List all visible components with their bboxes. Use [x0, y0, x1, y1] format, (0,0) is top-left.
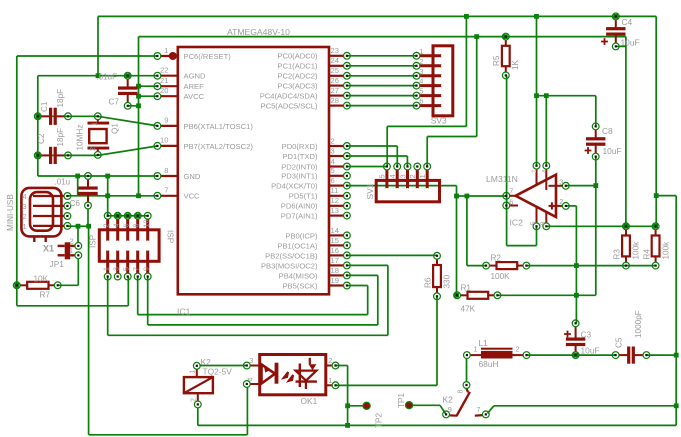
svg-text:PC6(/RESET): PC6(/RESET) — [184, 52, 232, 61]
IC1 pin 8 GND — [161, 175, 178, 177]
svg-text:8: 8 — [540, 221, 547, 225]
resistor R4 top — [652, 223, 659, 230]
svg-text:16: 16 — [331, 246, 339, 255]
X1 pin circle 3 — [64, 203, 71, 210]
junction R1 left — [454, 293, 459, 298]
SV3 pin circle 4 — [413, 82, 420, 89]
junction C3 bottom — [573, 353, 578, 358]
OK1 LED symbol — [262, 365, 276, 384]
svg-text:PB7(XTAL2/TOSC2): PB7(XTAL2/TOSC2) — [184, 142, 254, 151]
resistor R6 top — [434, 252, 441, 259]
svg-text:JP1: JP1 — [50, 259, 65, 269]
wire PB5 stub row — [347, 285, 368, 287]
SV1 pin circle 2 — [414, 163, 421, 170]
ISP pin circle 2 — [104, 212, 111, 219]
svg-text:2: 2 — [331, 136, 335, 145]
JP1 pin 1 — [75, 252, 82, 259]
ISP pin 5 bottom — [126, 248, 129, 273]
OK1 pin 3 circle — [243, 362, 250, 369]
pin circle 24 — [344, 62, 351, 69]
IC2 pin 7 output — [510, 195, 516, 197]
svg-text:1: 1 — [23, 222, 27, 231]
svg-text:LM311N: LM311N — [486, 174, 518, 184]
wire SCK row — [138, 314, 368, 316]
pin circle 27 — [344, 92, 351, 99]
wire vertical gnd-vcc link — [77, 176, 79, 196]
svg-text:PD5(T1): PD5(T1) — [289, 192, 318, 201]
IC1 pin 10 PB7(XTAL2/TOSC2) — [161, 145, 178, 147]
pin circle 19 — [344, 282, 351, 289]
IC1 pin 6 PD4(XCK/T0) — [329, 185, 343, 187]
junction GND-ISP — [105, 174, 110, 179]
wire TP1 to K2 pin9 — [412, 404, 440, 406]
wire vertical to top rail — [465, 16, 467, 126]
svg-text:7: 7 — [164, 186, 168, 195]
SV3 pin 2 — [420, 64, 444, 67]
svg-text:100k: 100k — [662, 241, 671, 260]
capacitor C6 — [87, 179, 89, 188]
ISP pin circle 9 — [144, 273, 151, 280]
resistor R5 bottom — [502, 72, 509, 79]
ISP pin 7 bottom — [136, 248, 139, 273]
OK1 pins — [250, 365, 259, 367]
wire RESET row to pin1 — [17, 55, 158, 57]
junction R2R3 row — [574, 263, 579, 268]
junction C1 left — [35, 114, 40, 119]
pin circle 7 — [154, 192, 161, 199]
pin circle 21 — [154, 83, 161, 90]
wire node row 136 — [427, 136, 477, 138]
wire PC1 to SV3 pin2 — [347, 65, 417, 67]
svg-text:28: 28 — [331, 96, 339, 105]
IC1 pin 1 reset dot marker — [169, 52, 177, 60]
wire VCC top rail — [139, 36, 626, 38]
IC2 pin 2 circle — [562, 203, 569, 210]
SV3 pin 5 — [420, 94, 444, 97]
svg-text:5: 5 — [530, 221, 537, 225]
wire USB pin1 row — [67, 225, 88, 227]
wire JP1 pin1 down — [77, 259, 79, 286]
OK1 light arrows — [284, 372, 289, 378]
wire R1 right row — [497, 294, 595, 296]
IC2 pin 5 circle — [533, 223, 540, 230]
resistor R5 top — [502, 33, 509, 40]
SV1 pin 1 — [426, 170, 429, 191]
K2 lever — [457, 392, 470, 416]
wire up to IC2 pin5 — [536, 226, 538, 245]
wire diagonal to pin9 — [440, 405, 446, 413]
wire C8 top row — [537, 95, 596, 97]
wire vertical to R2 left — [466, 196, 468, 266]
svg-text:C5: C5 — [615, 337, 624, 348]
IC2 pin 2 input plus — [549, 205, 563, 207]
pin circle 17 — [344, 262, 351, 269]
junction USB1-JP1 — [76, 224, 81, 229]
IC2 pin 8 bottom — [545, 212, 547, 223]
svg-text:3: 3 — [398, 174, 407, 178]
jumper JP1 body — [65, 242, 71, 259]
junction AREF — [136, 84, 141, 89]
IC1 pin 19 PB5(SCK) — [329, 284, 343, 286]
IC1 pin 13 PD7(AIN1) — [329, 215, 343, 217]
wire right vertical to R4 top — [655, 16, 657, 226]
svg-text:24: 24 — [331, 56, 339, 65]
resistor resistor R7 — [20, 284, 27, 286]
svg-text:10uF: 10uF — [603, 146, 622, 156]
ISP pin circle 7 — [134, 273, 141, 280]
wire ISP pin5 down — [127, 277, 129, 306]
K2 pin 8 circle — [463, 382, 470, 389]
L1 pin 1 — [464, 352, 471, 359]
pin circle 2 — [344, 143, 351, 150]
pin circle 11 — [344, 192, 351, 199]
svg-text:1: 1 — [418, 174, 427, 178]
SV3 pin 6 — [420, 104, 444, 107]
IC1 pin 14 PB0(ICP) — [329, 234, 343, 236]
junction C7 bottom — [136, 103, 141, 108]
Q1 pin 1 — [94, 113, 101, 120]
svg-text:47K: 47K — [461, 305, 476, 314]
wire R5 bottom through pins 7-6 — [506, 75, 508, 245]
svg-text:PC1(ADC1): PC1(ADC1) — [277, 62, 318, 71]
C6 bottom — [85, 202, 92, 209]
SV1 pin 2 — [416, 170, 419, 191]
pin circle 1 — [154, 53, 161, 60]
K2 pin 7 circle — [482, 411, 489, 418]
wire IC2 pin2 link — [566, 205, 577, 207]
pin circle 16 — [344, 252, 351, 259]
K2 coil pin 1 circle — [193, 362, 200, 369]
IC1 pin 27 PC4(ADC4/SDA) — [329, 94, 343, 96]
X1 pin circle 1 — [64, 223, 71, 230]
wire PD0 to SV1 pin4 — [396, 146, 398, 167]
inductor L1 68uH — [481, 348, 513, 350]
wire R2 left link — [467, 265, 486, 267]
wire C2 row — [38, 154, 98, 156]
svg-text:K2: K2 — [201, 357, 212, 367]
resistor R7 pin 1 — [13, 282, 20, 289]
ISP pin circle 6 — [124, 212, 131, 219]
svg-text:2: 2 — [23, 212, 27, 221]
junction TP2 node — [345, 403, 350, 408]
IC1 pin 20 AVCC — [161, 95, 178, 97]
svg-text:2: 2 — [408, 174, 417, 178]
svg-text:C2: C2 — [37, 133, 46, 144]
capacitor C3 polarized — [575, 327, 577, 340]
junction C8 row left — [534, 93, 539, 98]
junction pin3 net — [593, 183, 598, 188]
svg-text:1: 1 — [101, 267, 110, 271]
wire PD1 to SV1 pin3 — [406, 156, 408, 167]
ISP pin circle 8 — [134, 212, 141, 219]
wire C8 bottom down — [595, 157, 597, 296]
svg-text:6: 6 — [331, 176, 335, 185]
junction GND row — [75, 174, 80, 179]
wire PD1 row — [347, 155, 408, 157]
test point TP2 — [363, 403, 369, 409]
svg-text:PB1(OC1A): PB1(OC1A) — [277, 241, 318, 250]
svg-text:PB3(MOSI/OC2): PB3(MOSI/OC2) — [261, 261, 318, 270]
pin circle 22 — [154, 72, 161, 79]
svg-text:SV3: SV3 — [431, 116, 447, 126]
ISP pin 6 top — [126, 219, 129, 243]
svg-text:PD3(INT1): PD3(INT1) — [281, 172, 318, 181]
junction R4 top — [653, 224, 658, 229]
svg-text:IC2: IC2 — [510, 218, 524, 228]
svg-text:R1: R1 — [461, 283, 472, 292]
IC1 pin 26 PC3(ADC3) — [329, 84, 343, 86]
C4 polarized bottom — [612, 43, 619, 50]
wire ISP pin7 down — [137, 277, 139, 315]
SV3 pin 3 — [420, 74, 444, 77]
svg-text:4: 4 — [388, 174, 397, 178]
C6 top — [85, 173, 92, 180]
ISP pin circle 1 — [104, 273, 111, 280]
IC2 pin 8 circle — [543, 223, 550, 230]
wire OK1 pin4 down — [246, 387, 248, 435]
IC1 pin 11 PD5(T1) — [329, 195, 343, 197]
svg-text:PD7(AIN1): PD7(AIN1) — [281, 212, 318, 221]
svg-text:PC5(ADC5/SCL): PC5(ADC5/SCL) — [261, 102, 318, 111]
SV1 pin 3 — [406, 170, 409, 191]
wire PD0 row — [347, 145, 397, 147]
pin circle 10 — [154, 143, 161, 150]
svg-text:SV1: SV1 — [365, 183, 375, 199]
junction top rail / IC2 pin1 — [534, 14, 539, 19]
wire MISO vertical — [377, 275, 379, 325]
svg-text:4: 4 — [248, 378, 255, 382]
svg-text:1K: 1K — [511, 59, 520, 70]
resistor R1 pin 2 — [494, 292, 501, 299]
svg-text:7: 7 — [131, 267, 140, 271]
IC1 pin 5 PD3(INT1) — [329, 175, 343, 177]
svg-text:14: 14 — [331, 226, 339, 235]
junction C7 top — [125, 73, 130, 78]
svg-text:ISP: ISP — [166, 230, 175, 244]
wire ISP pin5 row — [17, 305, 129, 307]
ISP pin circle 10 — [144, 212, 151, 219]
IC1 pin 24 PC1(ADC1) — [329, 65, 343, 67]
wire left RESET vertical — [16, 56, 18, 306]
junction VCC row ISP — [105, 193, 110, 198]
wire PD2 to SV1 pin5 — [347, 166, 387, 168]
capacitor C2 left — [34, 152, 41, 159]
wire vertical pin2 to C3 top — [575, 206, 577, 323]
wire vertical to AGND node — [97, 16, 99, 75]
wire left vertical gnd — [37, 76, 39, 176]
wire R2 right to R3 R4 bottoms — [526, 265, 655, 267]
junction AVCC — [136, 94, 141, 99]
IC2 pin 7 circle — [503, 192, 510, 199]
resistor R3 top — [623, 223, 630, 230]
svg-text:ISP: ISP — [88, 234, 97, 248]
svg-text:18: 18 — [331, 266, 339, 275]
wire IC2 pin3 link — [566, 185, 596, 187]
svg-text:1000pF: 1000pF — [634, 310, 643, 338]
svg-text:2: 2 — [88, 147, 97, 151]
wire vertical to R1 left — [456, 186, 458, 296]
svg-text:7: 7 — [509, 186, 513, 195]
svg-text:R4: R4 — [643, 249, 652, 260]
junction R3 top — [624, 224, 629, 229]
svg-text:10: 10 — [142, 220, 151, 228]
svg-text:2: 2 — [191, 398, 198, 402]
capacitor capacitor C5 — [619, 354, 629, 356]
svg-text:20: 20 — [160, 86, 168, 95]
svg-text:.01uF: .01uF — [97, 73, 118, 82]
C8 polarized top — [592, 123, 599, 130]
svg-text:X1: X1 — [43, 244, 54, 254]
svg-text:AREF: AREF — [184, 82, 205, 91]
wire C5 right link — [646, 354, 676, 356]
svg-text:1: 1 — [164, 46, 168, 55]
junction right branch — [654, 193, 659, 198]
wire R7 right link — [58, 284, 79, 286]
svg-text:2: 2 — [328, 356, 332, 365]
wire PC5 to SV3 pin6 — [347, 105, 417, 107]
ISP pin circle 4 — [114, 212, 121, 219]
svg-text:C6: C6 — [70, 199, 81, 208]
wire to IC2 pin7 — [457, 195, 508, 197]
svg-text:25: 25 — [331, 66, 339, 75]
wire to JP1 pin2 — [77, 226, 79, 242]
pin circle 3 — [344, 153, 351, 160]
svg-text:3: 3 — [331, 146, 335, 155]
X1 pin circle 2 — [64, 213, 71, 220]
svg-text:C4: C4 — [622, 17, 633, 27]
svg-text:2: 2 — [102, 224, 111, 228]
svg-text:2: 2 — [516, 345, 520, 354]
svg-text:Q1: Q1 — [111, 123, 120, 134]
IC1 pin 12 PD6(AIN0) — [329, 205, 343, 207]
svg-text:9: 9 — [141, 267, 150, 271]
ISP pin 10 top — [146, 219, 149, 243]
wire vertical rail to IC2 pin1 — [536, 16, 538, 165]
wire MOSI row — [108, 334, 388, 336]
IC1 pin 28 PC5(ADC5/SCL) — [329, 104, 343, 106]
L1 pin 2 — [523, 352, 530, 359]
wire AGND row to pin22 — [38, 75, 158, 77]
IC1 pin 9 PB6(XTAL1/TOSC1) — [161, 125, 178, 127]
pin circle 5 — [344, 172, 351, 179]
SV1 pin 4 — [396, 170, 399, 191]
IC1 pin 16 PB2(SS/OC1B) — [329, 254, 343, 256]
svg-text:.01u: .01u — [55, 178, 71, 187]
junction C2 left — [35, 153, 40, 158]
IC1 pin 17 PB3(MOSI/OC2) — [329, 264, 343, 266]
svg-text:C8: C8 — [602, 126, 613, 136]
IC1 pin 7 VCC — [161, 195, 178, 197]
svg-text:11: 11 — [331, 186, 339, 195]
svg-text:18pF: 18pF — [56, 128, 65, 147]
svg-text:K2: K2 — [443, 395, 454, 405]
IC1 pin 4 PD2(INT0) — [329, 165, 343, 167]
junction right v C5 — [674, 353, 679, 358]
svg-text:R2: R2 — [491, 253, 502, 262]
wire OK1 pin1 row — [336, 384, 437, 386]
SV3 pin circle 1 — [413, 52, 420, 59]
wire SV1 pin5 up — [386, 126, 388, 166]
svg-text:9: 9 — [164, 116, 168, 125]
svg-text:PC4(ADC4/SDA): PC4(ADC4/SDA) — [260, 92, 318, 101]
resistor R6 bottom — [434, 293, 441, 300]
ISP pin 8 top — [136, 219, 139, 243]
wire bottom rail right — [198, 424, 676, 426]
IC1 pin 18 PB4(MISO) — [329, 274, 343, 276]
connector X1 MINI-USB outer — [21, 188, 61, 237]
wire MISO row — [148, 324, 378, 326]
svg-text:10uF: 10uF — [581, 346, 600, 356]
wire PB2 to R6 top — [347, 254, 437, 256]
capacitor capacitor C2 — [41, 154, 51, 156]
svg-text:PB5(SCK): PB5(SCK) — [282, 281, 317, 290]
svg-text:330: 330 — [443, 274, 452, 288]
C3 polarized bottom — [572, 352, 579, 359]
SV3 pin circle 2 — [413, 62, 420, 69]
svg-text:TQ2-5V: TQ2-5V — [203, 367, 233, 377]
IC1 pin 1 PC6(/RESET) — [161, 55, 178, 57]
svg-text:AVCC: AVCC — [184, 92, 205, 101]
ISP pin circle 5 — [124, 273, 131, 280]
IC1 pin 21 AREF — [161, 85, 178, 87]
svg-text:MINI-USB: MINI-USB — [6, 194, 15, 231]
wire GND top rail — [98, 15, 656, 17]
SV1 pin 5 — [385, 170, 388, 191]
connector SV3 body — [433, 46, 453, 116]
wire L1 pin2 to C3- C5 — [527, 354, 616, 356]
wire PB4 stub row — [347, 274, 378, 276]
wire bottom rail left — [89, 434, 248, 436]
X1 pin 2 — [33, 215, 64, 217]
wire node row 126 — [387, 125, 466, 127]
svg-text:PB2(SS/OC1B): PB2(SS/OC1B) — [265, 251, 318, 260]
svg-text:9: 9 — [448, 405, 452, 414]
ISP pin 2 top — [106, 219, 109, 243]
svg-text:23: 23 — [331, 46, 339, 55]
junction pin7 net — [454, 194, 459, 199]
svg-text:22: 22 — [160, 66, 168, 75]
svg-text:C7: C7 — [109, 98, 120, 107]
pin circle 8 — [154, 173, 161, 180]
wire diagonal from K2 pin7 — [488, 406, 494, 414]
IC1 pin 25 PC2(ADC2) — [329, 75, 343, 77]
svg-text:8: 8 — [164, 166, 168, 175]
SV3 pin 1 — [420, 54, 444, 57]
OK1 pin 2 circle — [332, 362, 339, 369]
resistor resistor R6 — [436, 259, 438, 265]
wire PB3 stub row — [347, 264, 388, 266]
svg-text:3: 3 — [23, 202, 27, 211]
IC1 pin 3 PD1(TXD) — [329, 155, 343, 157]
svg-text:17: 17 — [331, 256, 339, 265]
svg-text:PD4(XCK/T0): PD4(XCK/T0) — [271, 182, 318, 191]
capacitor C4 polarized — [615, 20, 617, 30]
wire PC2 to SV3 pin3 — [347, 75, 417, 77]
resistor resistor R2 — [490, 265, 497, 267]
capacitor C8 polarized — [595, 130, 597, 140]
svg-text:PB0(ICP): PB0(ICP) — [285, 231, 318, 240]
wire OK1 pin2 link — [336, 365, 347, 367]
wire diagonal XTAL1 to pin9 — [98, 116, 158, 126]
JP1 pin 2 — [75, 243, 82, 250]
optocoupler OK1 body — [260, 355, 326, 395]
resistor R3 bottom — [623, 262, 630, 269]
junction R2 net — [465, 194, 470, 199]
svg-text:21: 21 — [160, 76, 168, 85]
capacitor capacitor C1 — [41, 115, 51, 117]
svg-text:R7: R7 — [40, 291, 51, 300]
svg-text:5: 5 — [331, 166, 335, 175]
